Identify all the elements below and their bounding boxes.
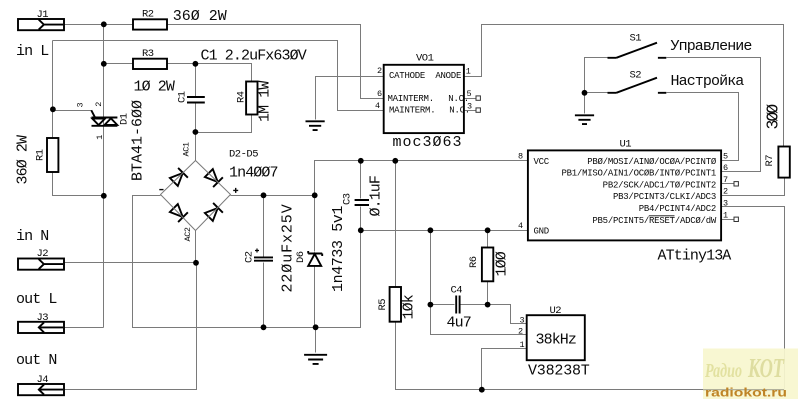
svg-text:R3: R3 [142,48,154,60]
svg-text:AC1: AC1 [182,142,192,156]
resistor R7 [778,147,789,178]
svg-text:VCC: VCC [534,157,550,167]
node C4 riser junction [428,227,434,233]
wire VCC rail to U1 pin8 [315,161,528,196]
IC U1 box [528,150,721,240]
svg-text:8: 8 [518,152,523,162]
wire R4 bottom to AC1 junction [196,115,252,133]
label plus (bridge) [233,188,238,193]
op-to-coupler VO1 box [384,65,464,133]
svg-text:1: 1 [723,210,728,220]
connector J1 [18,19,64,30]
node C3 bottom junction [358,227,364,233]
wire VO1 pin5 NC stub [464,98,477,100]
node C4 left junction [428,302,434,308]
wire S2 right to U1 pin5 [667,93,739,161]
svg-text:7: 7 [723,175,728,185]
svg-text:Управление: Управление [671,38,753,55]
svg-text:MAINTERM.: MAINTERM. [389,106,435,116]
wire R5 bottom to bottom rail [396,322,785,390]
no-connect square U1 pin7 [734,182,738,186]
svg-text:2: 2 [94,102,104,107]
label minus (bridge) [159,189,163,191]
svg-text:1: 1 [95,135,105,140]
svg-text:C1 2.2uFx63ØV: C1 2.2uFx63ØV [201,48,307,65]
wire C3 bottom [360,207,362,231]
wire ground stem below D6 rail [315,328,317,353]
svg-text:PB1/MISO/AIN1/OCØB/INTØ/PCINT1: PB1/MISO/AIN1/OCØB/INTØ/PCINT1 [561,169,716,179]
svg-text:moc3Ø63: moc3Ø63 [393,134,463,151]
node C3 top junction [358,158,364,164]
svg-text:1Ø 2W: 1Ø 2W [134,79,175,96]
svg-text:D2-D5: D2-D5 [229,149,258,161]
svg-text:R2: R2 [142,9,154,21]
svg-text:3ØØ: 3ØØ [764,104,783,130]
node R5 riser junction [392,158,398,164]
resistor R6 [482,248,493,282]
wire gate node vertical x=52.9 [52,41,54,139]
wire bridge bottom to AC2 node [195,231,197,263]
wire C4 left [431,304,455,306]
wire S2 left [585,92,609,94]
wire C4 riser from GND rail [430,231,432,305]
wire U1 pin7 NC stub [721,183,735,185]
node J1/R2 junction [101,21,107,27]
svg-text:3: 3 [75,103,85,108]
svg-text:36Ø 2W: 36Ø 2W [173,8,227,25]
svg-text:4: 4 [518,221,523,231]
bridge diode upper-right [204,168,223,187]
node U2 pin1 rail junction [479,387,485,393]
wire AC1 junction to bridge top [195,133,197,161]
svg-text:PB2/SCK/ADC1/TØ/PCINT2: PB2/SCK/ADC1/TØ/PCINT2 [603,180,716,190]
svg-text:2: 2 [377,66,382,76]
node R6 riser junction [485,227,491,233]
bridge rectifier D2-D5: diode upper-left [169,168,188,187]
resistor R2 [133,19,167,29]
connector J4 [18,384,64,395]
svg-text:R5: R5 [377,299,389,311]
resistor R3 [133,59,167,69]
svg-text:out L: out L [16,291,57,308]
wire VO1 pin2 cathode to ground [316,77,384,120]
wire R5 riser from VCC rail [395,161,397,287]
svg-text:22ØuFx25V: 22ØuFx25V [280,203,297,292]
wire R3 right to R4 top [167,64,252,82]
svg-text:3: 3 [520,315,525,325]
wire R2 right to VO1 pin6 [167,25,384,99]
svg-text:out N: out N [16,352,57,369]
wire triac gate [53,111,95,117]
wire VO1 pin1 anode up to top rail to R7 [464,25,784,147]
wire J2 to AC2 node [65,262,197,264]
svg-text:J2: J2 [37,248,49,260]
wire R6 riser from GND rail [487,231,489,248]
svg-text:Настройка: Настройка [671,73,745,90]
svg-text:1n4733 5v1: 1n4733 5v1 [330,206,347,292]
watermark wire showing through [703,389,784,391]
svg-text:C3: C3 [342,193,354,205]
node C1/R3/R4 junction [193,61,199,67]
wire R1 bottom to main node [53,173,104,196]
node C2 top junction [261,192,267,198]
wire S1 left to switches ground [585,58,609,114]
wire main L vertical x=103.8 (J1 down through triac to J3) [103,25,105,328]
svg-text:J1: J1 [37,9,49,21]
wire S1 right to U1 pin6 [667,58,761,172]
bridge frame wires [161,161,231,231]
svg-text:VO1: VO1 [416,53,434,65]
svg-text:5: 5 [723,151,728,161]
wire C4 left node to U2 pin2 [431,305,527,335]
node R3 tap junction [101,61,107,67]
node gate junction [50,106,56,112]
svg-text:S2: S2 [630,70,642,82]
wire D6 branch [314,196,316,328]
svg-text:radiokot.ru: radiokot.ru [705,386,787,400]
svg-text:C4: C4 [451,285,463,297]
svg-text:2: 2 [723,187,728,197]
watermark background [703,349,798,400]
svg-text:J3: J3 [37,312,49,324]
node D6 top junction [312,192,318,198]
svg-text:S1: S1 [630,33,642,45]
svg-text:PB4/PCINT4/ADC2: PB4/PCINT4/ADC2 [639,204,716,214]
svg-text:PB3/PCINT3/CLKI/ADC3: PB3/PCINT3/CLKI/ADC3 [613,192,716,202]
svg-text:R6: R6 [468,256,480,268]
node C1/R4/AC1 junction [193,129,199,135]
capacitor C1 symbol [187,97,205,103]
node S1/S2 ground junction [582,90,588,96]
wire R7 bottom to U1 pin2 [721,178,785,196]
svg-text:1M 1W: 1M 1W [257,81,274,122]
svg-text:1Øk: 1Øk [401,294,418,319]
node AC2 / in N / out N junction [193,260,199,266]
bridge diode lower-right [204,203,223,222]
svg-text:CATHODE ANODE: CATHODE ANODE [389,71,461,81]
wire in-L gate rail y=41 to VO1 pin4 [53,41,384,111]
capacitor C4 symbol [456,296,459,314]
svg-text:J4: J4 [37,374,49,386]
wire AC2 node down to J4 [65,263,197,390]
wire C1 top [195,64,197,97]
resistor R4 [246,82,257,115]
switch S2 [608,78,667,93]
node triac MT1 / R1 / out L junction [101,193,107,199]
wire bridge plus rail [231,195,315,197]
connector J2 [18,259,64,270]
svg-text:BTA41-6ØØ: BTA41-6ØØ [130,100,147,181]
svg-text:1: 1 [520,340,525,350]
svg-text:PBØ/MOSI/AINØ/OCØA/PCINTØ: PBØ/MOSI/AINØ/OCØA/PCINTØ [587,157,717,167]
node C4 right / R6 junction [485,302,491,308]
svg-text:3: 3 [723,199,728,209]
svg-text:U2: U2 [550,305,562,317]
wire R3 left [104,63,133,65]
svg-text:38kHz: 38kHz [536,332,577,349]
ground below D6 rail [304,355,327,364]
svg-text:U1: U1 [620,139,632,151]
svg-text:1n4ØØ7: 1n4ØØ7 [229,165,278,182]
svg-text:in L: in L [16,43,49,60]
svg-text:AC2: AC2 [183,227,193,241]
svg-text:in N: in N [16,228,48,245]
node C2 bottom junction [261,324,267,330]
bridge diode lower-left [169,203,188,222]
svg-text:V38238T: V38238T [528,363,590,380]
svg-text:PB5/PCINT5/RESET/ADCØ/dW: PB5/PCINT5/RESET/ADCØ/dW [592,216,716,226]
switch S1 [608,43,667,58]
svg-text:R7: R7 [764,155,776,167]
wire VO1 pin3 NC stub [464,110,477,112]
U1 RESET overline [649,215,675,217]
svg-text:C2: C2 [244,251,256,263]
svg-text:N.C.: N.C. [439,106,470,116]
svg-text:2: 2 [518,326,523,336]
svg-text:36Ø 2W: 36Ø 2W [15,135,32,185]
wire J3 to main vertical [65,327,104,329]
connector J3 [18,322,64,333]
svg-text:1: 1 [466,67,471,77]
svg-text:КОТ: КОТ [747,353,785,383]
svg-text:C1: C1 [177,91,189,103]
svg-text:1ØØ: 1ØØ [494,251,511,276]
svg-text:Ø.1uF: Ø.1uF [368,176,385,217]
wire C4 right to R6 bottom node [461,304,488,306]
IC U2 box [527,315,585,360]
svg-text:R1: R1 [35,149,47,161]
wire U2 pin1 to bottom rail [482,349,527,390]
no-connect square VO1 pin5 [476,96,480,100]
ground below switches [575,115,594,124]
wire R6 bottom [487,282,489,305]
svg-text:D6: D6 [295,251,307,263]
capacitor C2 symbol (polarized) [254,249,273,261]
svg-text:Радио: Радио [704,360,742,382]
svg-text:R4: R4 [236,91,248,103]
wire C3 top [360,161,362,199]
resistor R1 [47,138,58,172]
capacitor C3 symbol [355,200,369,205]
no-connect square VO1 pin3 [476,108,480,112]
wire C2 branch [263,196,265,328]
no-connect square U1 pin1 [734,217,738,221]
svg-text:MAINTERM.: MAINTERM. [388,94,434,104]
node D6 bottom / ground junction [313,324,319,330]
svg-text:6: 6 [723,163,728,173]
svg-text:4u7: 4u7 [447,315,471,332]
zener diode D6 symbol [308,251,322,266]
wire J1 to R2 (in L node) [65,24,133,26]
wire C1 bottom to AC1 junction [195,104,197,133]
wire bridge minus to ground rail [133,196,361,328]
svg-text:ATtiny13A: ATtiny13A [658,248,732,265]
ground below VO1 cathode [306,121,325,130]
svg-text:6: 6 [377,89,382,99]
wire C4 node to U2 pin3 [488,305,527,324]
wire U1 pin1 NC stub [721,219,735,221]
svg-text:GND: GND [534,227,549,237]
svg-text:4: 4 [375,101,380,111]
resistor R5 [390,287,401,322]
wire U1 pin3 to bottom rail riser [721,207,785,390]
svg-text:N.C.: N.C. [438,94,469,104]
wire GND rail to U1 pin4 [361,230,528,232]
triac D1 symbol [91,110,117,126]
